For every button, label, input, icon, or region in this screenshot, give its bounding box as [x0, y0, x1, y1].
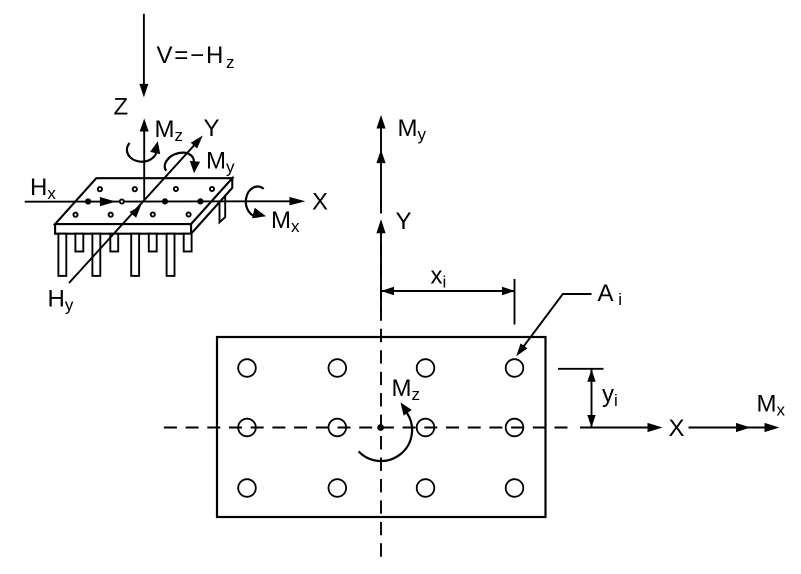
Z axis arrowhead — [140, 119, 149, 132]
svg-text:V=−H: V=−H — [157, 42, 226, 69]
pile circle r2c2 — [329, 419, 347, 437]
dashed Y centerline — [380, 200, 382, 558]
M_x arrowhead 2 (plan) — [765, 423, 780, 432]
y_i up arrowhead — [587, 369, 595, 382]
x_i dimension line — [381, 290, 515, 292]
back-right pile (partly hidden behind cap side face) — [220, 196, 226, 223]
x_i extension tick — [514, 279, 516, 325]
M_x moment double arrow line (plan) — [689, 427, 767, 429]
pile circle r2c3 — [417, 419, 435, 437]
pile circle r3c2 — [329, 479, 347, 497]
mid-row pile 2 — [110, 234, 118, 252]
svg-text:Y: Y — [204, 115, 220, 142]
V load arrowhead — [139, 84, 148, 98]
pile cap front face — [55, 224, 191, 234]
M_z moment curl (3D, around Z axis) — [127, 143, 157, 162]
Y axis arrowhead (3D) — [191, 136, 203, 149]
pile cap top face — [55, 178, 232, 224]
M_y moment double arrow line (plan) — [380, 121, 382, 207]
X axis arrow line (plan) — [580, 427, 649, 429]
y_i top tick line — [558, 368, 604, 370]
V load arrow line — [143, 14, 145, 85]
M_z moment curl arrowhead (3D) — [150, 141, 160, 154]
pile head dot row A2 — [133, 187, 137, 191]
svg-text:X: X — [669, 415, 685, 442]
x_i right arrowhead — [502, 287, 515, 295]
mid-row pile 3 — [149, 234, 157, 252]
H_y force arrowhead — [130, 206, 142, 218]
pile head dot row A4 — [210, 187, 214, 191]
front-row pile 4 — [167, 234, 175, 276]
dashed X centerline — [164, 427, 568, 429]
origin dot — [377, 424, 384, 431]
M_z arc arrowhead (plan) — [401, 403, 412, 416]
X axis arrowhead (plan) — [648, 423, 663, 432]
pile circle r3c3 — [417, 479, 435, 497]
M_x moment curl arrowhead (3D) — [252, 208, 266, 219]
M_x arrowhead 1 (plan) — [736, 423, 751, 432]
svg-text:Y: Y — [396, 208, 412, 235]
pile head dot row C2 — [109, 213, 113, 217]
pile cap outline rectangle — [217, 337, 546, 517]
pile circle r3c1 — [238, 479, 256, 497]
pile head dot row A3 — [174, 187, 178, 191]
Y axis diagonal line (3D, also H_y line) — [69, 143, 197, 283]
pile head dot row B4 (filled, on X axis) — [197, 198, 203, 204]
y_i down arrowhead — [587, 415, 595, 428]
pile head dot row C1 — [73, 213, 77, 217]
svg-text:Z: Z — [114, 94, 129, 121]
front-row pile 1 — [58, 234, 66, 276]
svg-text:z: z — [226, 53, 235, 72]
pile head dot row C4 — [187, 212, 191, 216]
M_z moment arc (plan) — [359, 413, 412, 461]
pile head dot row B3 (filled, on X axis) — [162, 198, 168, 204]
pile circle r1c3 — [417, 359, 435, 377]
pile head dot row C3 — [151, 212, 155, 216]
y_i dimension line — [591, 369, 593, 428]
svg-text:X: X — [312, 189, 328, 216]
front-row pile 2 — [92, 234, 100, 276]
A_i leader line — [520, 294, 592, 351]
mid-row pile 4 — [184, 234, 192, 252]
M_x moment curl (3D, around X axis) — [246, 187, 264, 217]
M_y arrowhead 2 (plan) — [376, 150, 385, 164]
H_x force arrowhead — [100, 197, 116, 206]
Z axis line (3D) — [143, 131, 145, 202]
Y axis arrow line (plan) — [380, 226, 382, 313]
pile head dot row B1 (filled, on X axis) — [85, 198, 91, 204]
pile head dot row B2 (open, on X axis) — [120, 199, 124, 203]
pile cap right side face — [191, 178, 232, 234]
X axis line (3D) — [25, 200, 292, 202]
pile circle r2c1 — [238, 419, 256, 437]
X axis arrowhead (3D) — [289, 197, 305, 205]
M_y moment curl (3D, around Y axis) — [165, 153, 194, 171]
A_i leader arrowhead — [516, 343, 527, 356]
pile circle r1c4 (A_i) — [506, 359, 524, 377]
Y axis arrowhead (plan) — [376, 219, 385, 233]
front-row pile 3 — [131, 234, 139, 276]
pile circle r1c1 — [238, 359, 256, 377]
mid-row pile 1 — [75, 234, 83, 252]
pile circle r1c2 — [329, 359, 347, 377]
pile head dot row A1 — [98, 187, 102, 191]
M_y arrowhead 1 (plan) — [376, 115, 385, 129]
x_i left arrowhead — [381, 287, 394, 295]
M_y moment curl arrowhead (3D) — [190, 161, 200, 173]
pile circle r3c4 — [506, 479, 524, 497]
pile circle r2c4 — [506, 419, 524, 437]
